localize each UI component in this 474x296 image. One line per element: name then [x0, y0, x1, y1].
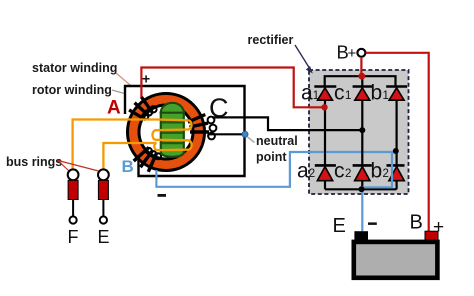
- svg-text:bus rings: bus rings: [6, 155, 62, 169]
- wire rotor to bus ring E (orange): [103, 143, 156, 169]
- diode b2: [387, 165, 405, 189]
- svg-text:2: 2: [345, 168, 351, 180]
- svg-text:+: +: [142, 71, 150, 87]
- top bus (B+): [325, 76, 396, 86]
- junction dot phase A: [321, 104, 327, 110]
- leader bus rings F: [58, 161, 70, 172]
- diode a2: [315, 165, 336, 189]
- diode b1: [386, 87, 407, 101]
- battery body: [354, 242, 438, 278]
- diode a1: [314, 87, 336, 101]
- wire phase B (blue) to rectifier: [156, 152, 394, 187]
- wire phase C (black) to rectifier: [212, 117, 360, 130]
- svg-text:rotor winding: rotor winding: [32, 83, 112, 97]
- junction dot phase B: [393, 148, 399, 154]
- svg-text:rectifier: rectifier: [248, 33, 294, 47]
- diode c2: [353, 165, 372, 189]
- label minus battery: [368, 222, 377, 225]
- svg-text:B: B: [410, 212, 423, 234]
- bus a (vertical): [324, 100, 326, 165]
- bus c (vertical): [361, 100, 363, 165]
- svg-text:c: c: [334, 82, 345, 105]
- svg-text:+: +: [348, 45, 357, 62]
- alternator housing: [125, 86, 245, 176]
- svg-text:F: F: [68, 227, 79, 247]
- svg-text:c: c: [334, 160, 345, 183]
- neutral wire stub: [208, 133, 243, 135]
- winding C (phase C coil on stator): [188, 115, 217, 140]
- svg-text:a: a: [297, 160, 309, 183]
- junction dot B+ bus: [358, 73, 365, 80]
- junction dot phase C: [359, 127, 365, 133]
- neutral point dot: [242, 131, 248, 137]
- svg-text:E: E: [98, 227, 110, 247]
- svg-text:1: 1: [345, 90, 351, 102]
- svg-text:B: B: [122, 157, 134, 176]
- leader stator winding: [116, 73, 150, 102]
- svg-text:2: 2: [383, 168, 389, 180]
- bus ring E (brush): [98, 169, 109, 223]
- svg-text:2: 2: [309, 168, 315, 180]
- svg-text:b: b: [371, 160, 383, 183]
- svg-text:E: E: [333, 215, 346, 237]
- rectifier box: [309, 70, 409, 194]
- svg-text:1: 1: [383, 90, 389, 102]
- svg-text:neutral: neutral: [256, 134, 298, 148]
- battery terminal E (negative): [354, 231, 368, 240]
- leader rotor winding: [112, 90, 144, 99]
- label - stator: [158, 194, 167, 197]
- rotor core: [160, 103, 186, 157]
- svg-text:point: point: [256, 150, 287, 164]
- wire B+ to battery (red): [366, 53, 429, 231]
- wire E (blue) rectifier to battery: [362, 153, 392, 232]
- svg-text:a: a: [301, 82, 313, 105]
- svg-text:b: b: [371, 82, 383, 105]
- bottom bus: [325, 188, 397, 190]
- stator toroid: [128, 94, 205, 171]
- bus ring F (brush): [68, 169, 79, 223]
- leader rectifier arrow: [295, 45, 310, 69]
- svg-text:stator winding: stator winding: [32, 61, 117, 75]
- junction dot E: [359, 186, 365, 192]
- svg-text:1: 1: [313, 90, 319, 102]
- B+ terminal: [357, 49, 365, 57]
- leader neutral point: [248, 137, 255, 143]
- winding A (phase A coil on stator): [129, 97, 156, 120]
- battery terminal B (positive): [425, 231, 438, 240]
- winding B (phase B coil on stator): [134, 147, 161, 171]
- leader bus rings E: [58, 161, 99, 172]
- wire B+ to top bus (red): [360, 57, 362, 76]
- bus b (vertical): [396, 100, 398, 165]
- svg-text:+: +: [433, 217, 444, 238]
- diode c1: [353, 87, 373, 101]
- svg-text:A: A: [107, 98, 121, 119]
- wire phase A (red) to rectifier: [141, 68, 322, 108]
- rotor winding coil: [152, 120, 191, 151]
- wire rotor to bus ring F (orange): [73, 120, 157, 170]
